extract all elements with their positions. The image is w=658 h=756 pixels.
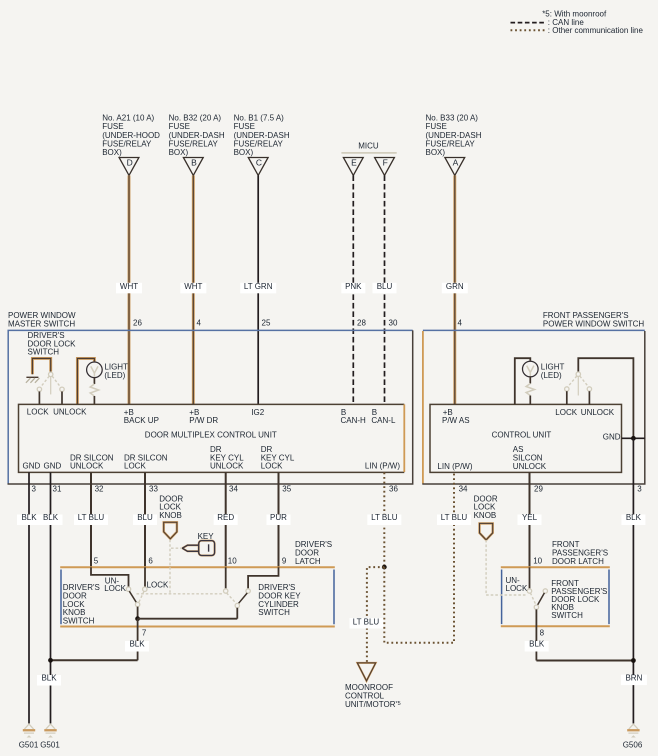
svg-text:LT BLU: LT BLU <box>441 513 468 522</box>
svg-text:LOCK: LOCK <box>555 408 577 417</box>
svg-text:: Other communication line: : Other communication line <box>548 26 644 35</box>
svg-text:YEL: YEL <box>522 513 538 522</box>
pin 32 master switch bottom <box>95 484 104 493</box>
light LED branch master switch <box>77 358 128 404</box>
wire BLK pin 3 to G501 <box>17 472 41 723</box>
svg-text:9: 9 <box>282 557 287 566</box>
svg-text:LOCK: LOCK <box>27 408 49 417</box>
wire LT BLU LIN branch to moonroof <box>350 567 385 662</box>
pin 28 <box>357 319 366 328</box>
svg-text:UNLOCK: UNLOCK <box>513 462 547 471</box>
latch pin 5 <box>94 557 99 566</box>
svg-text:30: 30 <box>389 319 398 328</box>
svg-text:D: D <box>127 157 133 167</box>
driver's door lock switch <box>28 331 77 374</box>
svg-text:4: 4 <box>458 319 463 328</box>
passenger control unit box <box>430 404 622 472</box>
wire RED pin 34 to latch pin 10 <box>214 472 238 567</box>
svg-text:P/W AS: P/W AS <box>442 416 470 425</box>
svg-text:DOOR LATCH: DOOR LATCH <box>552 557 604 566</box>
pin 3 master switch bottom <box>32 484 37 493</box>
svg-text:E: E <box>351 157 357 167</box>
connector C (fuse B1) <box>248 157 268 175</box>
svg-text:(LED): (LED) <box>104 371 125 380</box>
key symbol <box>182 532 214 556</box>
power window master switch box <box>8 311 413 484</box>
pin 3 passenger switch bottom <box>637 484 642 493</box>
svg-text:WHT: WHT <box>120 282 138 291</box>
svg-text:G501: G501 <box>40 740 60 749</box>
svg-text:BOX): BOX) <box>234 148 254 157</box>
svg-text:GND: GND <box>44 462 62 471</box>
svg-text:LOCK: LOCK <box>104 584 126 593</box>
svg-text:LOCK: LOCK <box>147 581 169 590</box>
latch pin 6 <box>148 557 153 566</box>
svg-text:7: 7 <box>142 629 147 638</box>
svg-text:3: 3 <box>32 484 37 493</box>
svg-text:34: 34 <box>229 484 238 493</box>
svg-text:29: 29 <box>534 484 543 493</box>
svg-text:P/W DR: P/W DR <box>189 416 218 425</box>
svg-text:8: 8 <box>540 629 545 638</box>
svg-text:UNLOCK: UNLOCK <box>53 408 87 417</box>
svg-text:LIN (P/W): LIN (P/W) <box>365 462 400 471</box>
svg-text:36: 36 <box>389 484 398 493</box>
svg-text:BLK: BLK <box>41 674 57 683</box>
driver's door key cylinder switch <box>224 567 302 618</box>
svg-text:RED: RED <box>217 513 234 522</box>
knob switch junction to pin 7 <box>125 616 237 660</box>
svg-text:LATCH: LATCH <box>295 557 321 566</box>
driver's door lock knob switch <box>63 567 169 625</box>
svg-text:SWITCH: SWITCH <box>258 608 290 617</box>
svg-text:IG2: IG2 <box>251 408 264 417</box>
svg-text:DOOR MULTIPLEX CONTROL UNIT: DOOR MULTIPLEX CONTROL UNIT <box>145 430 277 439</box>
door multiplex control unit box <box>19 404 405 472</box>
svg-text:SWITCH: SWITCH <box>551 611 583 620</box>
svg-text:10: 10 <box>228 557 237 566</box>
svg-text:28: 28 <box>357 319 366 328</box>
wire PNK CAN-H dashed from E to pin 28 <box>341 175 365 404</box>
driver's door latch box <box>60 540 335 626</box>
driver door lock knob symbol <box>159 494 183 539</box>
svg-text:G501: G501 <box>19 740 39 749</box>
svg-text:GRN: GRN <box>446 282 464 291</box>
svg-text:BLU: BLU <box>137 513 153 522</box>
svg-text:BLK: BLK <box>529 640 545 649</box>
svg-text:GND: GND <box>603 432 621 441</box>
connector E (MICU CAN-H) <box>343 157 363 175</box>
wire WHT from D to pin 26 <box>116 175 142 404</box>
svg-text:PUR: PUR <box>270 513 287 522</box>
passenger knob linkage <box>486 540 526 595</box>
ground G501 pin 3 <box>19 724 39 749</box>
wire GRN from A to passenger pin 4 <box>442 175 468 404</box>
MICU unit label and bracket <box>341 141 396 153</box>
svg-text:(LED): (LED) <box>541 371 562 380</box>
svg-text:CONTROL UNIT: CONTROL UNIT <box>492 431 552 440</box>
svg-text:BOX): BOX) <box>426 148 446 157</box>
fuse F2 label No. B32 (20 A) <box>169 114 225 157</box>
pin 35 master switch bottom <box>282 484 291 493</box>
front passenger's door lock knob switch <box>506 567 608 660</box>
svg-text:PNK: PNK <box>345 282 362 291</box>
svg-text:BLK: BLK <box>129 640 145 649</box>
pin 4 <box>197 319 202 328</box>
svg-text:BLU: BLU <box>377 282 393 291</box>
svg-text:LT GRN: LT GRN <box>244 282 273 291</box>
svg-text:10: 10 <box>533 557 542 566</box>
passenger switch GND line <box>603 432 645 441</box>
svg-text:25: 25 <box>262 319 271 328</box>
wire BLK pin 7 to pin 31 wire <box>37 658 138 686</box>
svg-text:4: 4 <box>197 319 202 328</box>
svg-text:33: 33 <box>149 484 158 493</box>
svg-text:BLK: BLK <box>21 513 37 522</box>
door lock switch pivot and arms <box>37 372 64 404</box>
svg-text:SWITCH: SWITCH <box>28 348 60 357</box>
chassis ground of door lock switch <box>26 377 40 383</box>
svg-text:5: 5 <box>94 557 99 566</box>
wire BLK pin 31 to G501 <box>39 472 63 723</box>
svg-text:BLK: BLK <box>626 513 642 522</box>
pin 26 <box>133 319 142 328</box>
pin 25 <box>262 319 271 328</box>
latch pin 10 <box>228 557 237 566</box>
pin 29 passenger switch bottom <box>534 484 543 493</box>
svg-text:31: 31 <box>53 484 62 493</box>
pin 34 master switch bottom <box>229 484 238 493</box>
wire BLK passenger pin 3 to G506 <box>621 438 647 723</box>
svg-text:UNLOCK: UNLOCK <box>581 408 615 417</box>
pin 31 master switch bottom <box>53 484 62 493</box>
fuse F1 label No. A21 (10 A) <box>102 114 160 157</box>
legend CAN line sample <box>511 18 585 27</box>
svg-text:3: 3 <box>637 484 642 493</box>
wire LT BLU pin 32 to latch pin 5 <box>74 472 108 567</box>
passenger latch pin 10 <box>533 557 542 566</box>
front passenger power window switch box <box>422 311 645 484</box>
wire LT GRN from C to pin 25 <box>240 175 276 404</box>
svg-text:LIN (P/W): LIN (P/W) <box>437 462 472 471</box>
svg-text:32: 32 <box>95 484 104 493</box>
pin labels top row of control unit <box>27 408 396 425</box>
svg-text:LT BLU: LT BLU <box>78 513 105 522</box>
ground G506 <box>623 724 643 749</box>
svg-text:BLK: BLK <box>43 513 59 522</box>
legend other communication line sample <box>511 26 644 35</box>
svg-text:26: 26 <box>133 319 142 328</box>
fuse F3 label No. B1 (7.5 A) <box>234 114 290 157</box>
moonroof control unit connector <box>345 663 401 709</box>
svg-text:C: C <box>256 157 262 167</box>
pin 34 passenger switch bottom <box>459 484 468 493</box>
connector A (fuse B33) <box>445 157 465 175</box>
wire BLU pin 33 to latch pin 6 <box>133 472 157 567</box>
latch pin 9 <box>282 557 287 566</box>
svg-text:A: A <box>453 157 459 167</box>
svg-text:KNOB: KNOB <box>474 511 497 520</box>
svg-text:WHT: WHT <box>184 282 202 291</box>
svg-text:BOX): BOX) <box>102 148 122 157</box>
wire LT BLU LIN branch to passenger pin 34 <box>384 472 471 642</box>
front passenger's door latch box <box>501 540 610 626</box>
svg-text:CAN-L: CAN-L <box>371 416 396 425</box>
svg-text:35: 35 <box>282 484 291 493</box>
svg-text:BRN: BRN <box>625 673 642 682</box>
svg-text:POWER WINDOW SWITCH: POWER WINDOW SWITCH <box>543 320 645 329</box>
svg-text:GND: GND <box>23 462 41 471</box>
svg-text:G506: G506 <box>623 740 643 749</box>
svg-text:6: 6 <box>148 557 153 566</box>
wire PUR pin 35 to latch pin 9 <box>267 472 291 567</box>
connector B (fuse B32) <box>183 157 203 175</box>
svg-text:UNIT/MOTOR*5: UNIT/MOTOR*5 <box>345 700 401 709</box>
ground G501 pin 31 <box>40 724 60 749</box>
svg-text:LOCK: LOCK <box>506 584 528 593</box>
wire LT BLU LIN pin 36 dotted <box>367 472 401 567</box>
passenger control unit pin labels <box>437 408 614 471</box>
svg-text:LOCK: LOCK <box>261 462 283 471</box>
wire BLK passenger pin 8 to ground wire <box>536 658 635 663</box>
svg-text:UNLOCK: UNLOCK <box>70 462 104 471</box>
svg-text:34: 34 <box>459 484 468 493</box>
svg-text:CAN-H: CAN-H <box>341 416 367 425</box>
svg-text:LT BLU: LT BLU <box>371 513 398 522</box>
pin 33 master switch bottom <box>149 484 158 493</box>
wire WHT from B to pin 4 <box>180 175 206 404</box>
svg-text:KNOB: KNOB <box>159 511 182 520</box>
wire BLU CAN-L dashed from F to pin 30 <box>373 175 397 404</box>
svg-text:B: B <box>191 157 197 167</box>
svg-text:UNLOCK: UNLOCK <box>210 462 244 471</box>
LIN junction <box>382 565 387 570</box>
fuse F4 label No. B33 (20 A) <box>426 114 482 157</box>
legend note *5 with moonroof <box>542 10 607 19</box>
pin 36 master switch bottom <box>389 484 398 493</box>
passenger door lock knob symbol <box>474 494 498 540</box>
svg-text:SWITCH: SWITCH <box>63 617 95 626</box>
connector D (fuse A21) <box>119 157 139 175</box>
passenger lock unlock switch <box>565 358 634 438</box>
svg-text:MASTER SWITCH: MASTER SWITCH <box>8 320 75 329</box>
wire YEL pin 29 to passenger latch pin 10 <box>518 472 542 567</box>
svg-text:BACK UP: BACK UP <box>124 416 159 425</box>
light LED branch passenger switch <box>515 358 565 404</box>
svg-text:LOCK: LOCK <box>124 462 146 471</box>
svg-text:BOX): BOX) <box>169 148 189 157</box>
svg-text:LT BLU: LT BLU <box>353 618 380 627</box>
pin 30 <box>389 319 398 328</box>
pin labels bottom row of control unit <box>23 445 401 471</box>
svg-text:MICU: MICU <box>358 141 379 150</box>
mechanical linkage knob and key to switches <box>137 540 224 594</box>
connector F (MICU CAN-L) <box>375 157 395 175</box>
pin 4 passenger <box>458 319 463 328</box>
svg-text:F: F <box>383 157 388 167</box>
